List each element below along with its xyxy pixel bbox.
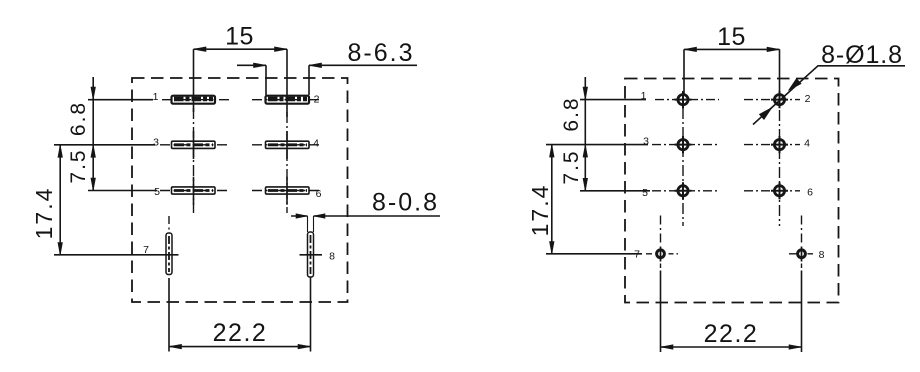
centerline row1 horizontal right view	[655, 99, 800, 101]
crossbar pin4	[286, 131, 288, 159]
svg-text:2: 2	[314, 94, 320, 106]
dim 8-0.8 leader lines	[291, 215, 440, 217]
svg-text:17.4: 17.4	[31, 187, 57, 240]
svg-text:17.4: 17.4	[527, 184, 553, 237]
svg-text:7: 7	[634, 249, 640, 261]
pad pin6 (slot 6.3)	[266, 187, 310, 194]
dim 15 line right view	[684, 48, 780, 50]
ext line row78 left	[54, 254, 150, 256]
pad pin2 (slot 6.3)	[266, 96, 310, 104]
svg-text:5: 5	[642, 187, 648, 199]
dim 22.2 ext line pin7 right view	[660, 271, 662, 353]
dim 22.2 arrow right	[298, 344, 311, 349]
pad pin7 (slot 0.8 vertical)	[166, 233, 172, 275]
svg-text:8: 8	[329, 251, 335, 263]
dim 6.8 bottom arrow right view	[583, 145, 588, 158]
dim 15 ext lines right view	[684, 49, 780, 94]
dim 15 arrow left right view	[684, 47, 697, 52]
hole pin8 cross stub	[801, 247, 803, 262]
dim 22.2 ext line pin7	[168, 278, 170, 352]
dim 22.2 ext line pin8	[310, 277, 312, 352]
svg-text:5: 5	[154, 186, 160, 198]
ext line row1 left	[88, 99, 153, 101]
svg-text:2: 2	[805, 93, 811, 105]
svg-text:6.8: 6.8	[67, 101, 90, 136]
dim 6.8 bottom arrow / 7.5 top arrow	[91, 145, 96, 158]
svg-text:8-6.3: 8-6.3	[348, 39, 415, 67]
centerline pin8 right view	[801, 216, 803, 246]
dim 7.5 bottom arrow	[91, 178, 96, 191]
dim 6.8/7.5 dimension line	[92, 77, 94, 191]
centerline pin2 column vertical right view	[779, 110, 781, 226]
dim 8-o1.8 arrow to pin2 upper	[788, 79, 801, 91]
dim 6.8 top arrow	[91, 87, 96, 100]
ext line row2 left	[54, 144, 155, 146]
svg-text:7.5: 7.5	[560, 149, 583, 184]
centerline pin8 below dash	[801, 264, 803, 269]
crossbar pin8	[300, 254, 323, 256]
hole pin4 (o1.8)	[771, 136, 788, 153]
ext line row78 left right view	[546, 253, 642, 255]
hole pin7 (o0.8)	[657, 250, 665, 258]
ext line row3 left	[88, 190, 157, 192]
dim 17.4 top arrow right view	[550, 145, 555, 158]
dim 22.2 ext line pin8 right view	[801, 271, 803, 353]
hole pin6 (o1.8)	[771, 182, 788, 199]
hole pin1 (o1.8)	[675, 91, 692, 108]
svg-text:22.2: 22.2	[704, 320, 759, 348]
centerline pin7 below dash	[660, 264, 662, 269]
dim 17.4 top arrow	[58, 145, 63, 158]
dim 22.2 dimension line right view	[661, 346, 802, 348]
ext line row3 left right view	[580, 190, 650, 192]
svg-text:6: 6	[316, 188, 322, 200]
svg-text:1: 1	[153, 91, 159, 103]
svg-text:7.5: 7.5	[67, 148, 90, 183]
dim 15 arrow left	[194, 47, 207, 52]
crossbar pin3	[193, 131, 195, 159]
dim 22.2 dimension line	[169, 346, 311, 348]
pad pin8 (slot 0.8 vertical)	[308, 232, 314, 277]
pad pin3 (slot 6.3)	[172, 141, 216, 148]
svg-text:3: 3	[643, 136, 649, 148]
centerline pin7 right view	[660, 216, 662, 246]
ext line row1 left right view	[580, 99, 646, 101]
dim 15 arrow right	[275, 47, 288, 52]
dim 7.5 bottom arrow right view	[583, 178, 588, 191]
crossbar pin7	[150, 254, 179, 256]
dim 15 ext line right (through pin2)	[286, 49, 288, 117]
dim 17.4 bottom arrow right view	[550, 242, 555, 255]
dim 6.8 top arrow right view	[583, 87, 588, 100]
dim 22.2 arrow left right view	[661, 345, 674, 350]
relay body outline (dashed)	[132, 78, 348, 302]
svg-text:3: 3	[153, 137, 159, 149]
hole pin8 (o0.8)	[798, 250, 806, 258]
centerline pin1 column vertical (dash-dot)	[193, 108, 195, 213]
pad pin1 (slot 6.3)	[172, 96, 216, 104]
svg-text:4: 4	[313, 138, 319, 150]
dim 22.2 arrow right right view	[789, 345, 802, 350]
svg-text:15: 15	[717, 23, 746, 51]
hole pin5 (o1.8)	[675, 182, 692, 199]
dim 6.8/7.5 dimension line right view	[584, 77, 586, 191]
dim 17.4 bottom arrow	[58, 243, 63, 256]
svg-text:7: 7	[143, 244, 149, 256]
crossbar pin6	[286, 177, 288, 205]
dim 15 arrow right right view	[767, 47, 780, 52]
centerline row2 horizontal right view	[652, 144, 800, 146]
relay body outline right (dashed)	[625, 79, 839, 303]
centerline row3 horizontal (dash-dot)	[160, 190, 322, 192]
svg-text:4: 4	[804, 138, 810, 150]
dim 8-o1.8 arrow to pin2 lower	[759, 108, 772, 120]
dim 22.2 arrow left	[169, 344, 182, 349]
svg-text:8: 8	[819, 249, 825, 261]
svg-text:1: 1	[641, 90, 647, 102]
dim 8-6.3 arrow right	[309, 63, 322, 68]
dim 17.4 dimension line right view	[551, 145, 553, 254]
pad pin4 (slot 6.3)	[266, 141, 310, 148]
svg-text:8-0.8: 8-0.8	[372, 189, 439, 217]
dim 8-0.8 ext lines at slot edges	[308, 216, 314, 232]
dim 15 ext line left (through pin1)	[193, 49, 195, 112]
svg-text:15: 15	[225, 23, 254, 51]
centerline row1 horizontal (dash-dot)	[162, 99, 322, 101]
svg-text:22.2: 22.2	[213, 319, 268, 347]
dim 17.4 dimension line	[59, 145, 61, 255]
dim 15 line	[194, 48, 288, 50]
crossbar pin5	[193, 177, 195, 205]
svg-text:6.8: 6.8	[560, 96, 583, 131]
dim 8-0.8 arrow left	[296, 214, 308, 219]
centerline pin2 column vertical (dash-dot)	[286, 112, 288, 213]
dim 8-6.3 leader lines	[237, 64, 417, 66]
hole pin2 (o1.8)	[771, 91, 788, 108]
centerline pin1 column vertical right view	[682, 108, 684, 226]
dim 8-6.3 arrow left	[254, 63, 267, 68]
pad pin5 (slot 6.3)	[172, 187, 216, 194]
dim 8-o1.8 leader underline	[753, 66, 905, 125]
svg-text:6: 6	[807, 187, 813, 199]
centerline row2 horizontal (dash-dot)	[160, 144, 322, 146]
dim 8-0.8 arrow right	[314, 214, 326, 219]
svg-text:8-Ø1.8: 8-Ø1.8	[821, 41, 903, 69]
ext line row2 left right view	[546, 144, 648, 146]
centerline row3 horizontal right view	[652, 190, 800, 192]
hole pin3 (o1.8)	[675, 136, 692, 153]
hole pin7 cross stub	[660, 247, 662, 262]
dim 8-6.3 ext lines at pad edges	[266, 65, 309, 95]
